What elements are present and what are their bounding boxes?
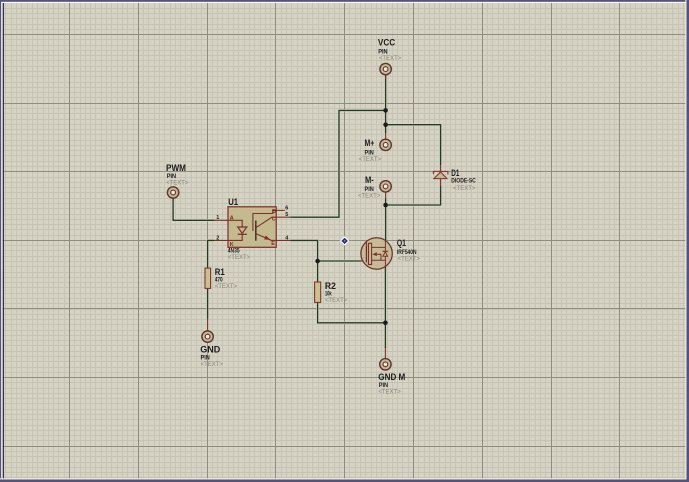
wire GND-M stub — [384, 348, 386, 358]
svg-text:<TEXT>: <TEXT> — [358, 194, 381, 200]
svg-text:4N35: 4N35 — [228, 249, 240, 255]
svg-text:<TEXT>: <TEXT> — [201, 362, 224, 368]
wire R2 to source node — [318, 302, 386, 322]
svg-text:B: B — [272, 209, 276, 215]
svg-text:<TEXT>: <TEXT> — [453, 186, 476, 192]
diode D1 DIODE-SC — [433, 171, 448, 178]
U1 pin 4 emitter — [256, 234, 290, 241]
wire VCC pin down — [384, 75, 386, 111]
wire GND stub — [207, 319, 209, 331]
svg-text:M-: M- — [365, 175, 374, 185]
pin GND — [202, 331, 213, 342]
U1 pin 2 stub — [214, 234, 242, 240]
svg-text:U1: U1 — [228, 197, 238, 207]
svg-text:PIN: PIN — [167, 174, 176, 180]
svg-text:R2: R2 — [325, 281, 336, 291]
svg-text:1: 1 — [216, 215, 219, 221]
svg-text:<TEXT>: <TEXT> — [378, 389, 401, 395]
svg-text:C: C — [272, 216, 276, 222]
wire D1 anode stub — [440, 179, 442, 186]
svg-text:A: A — [230, 216, 234, 222]
sheet edge line — [3, 3, 4, 482]
wire M- pin to node C — [384, 198, 386, 205]
U1 emitter arrow — [264, 235, 270, 240]
wire Q1 gate stub — [361, 260, 368, 262]
wire D1 cathode stub — [440, 165, 442, 171]
wire source node to GND-M pin — [384, 323, 386, 348]
svg-text:DIODE-SC: DIODE-SC — [451, 179, 476, 185]
U1 pin 1 stub — [214, 220, 242, 227]
svg-text:IRF540N: IRF540N — [397, 250, 417, 256]
svg-text:<TEXT>: <TEXT> — [166, 181, 189, 187]
wire R1 to GND pin — [206, 288, 208, 319]
wire M+ stub — [385, 133, 387, 139]
svg-text:<TEXT>: <TEXT> — [398, 256, 421, 262]
node E junction dot — [383, 321, 388, 326]
svg-text:<TEXT>: <TEXT> — [359, 157, 382, 163]
svg-text:<TEXT>: <TEXT> — [379, 56, 402, 62]
svg-text:K: K — [230, 242, 234, 248]
resistor R2 — [315, 282, 321, 302]
svg-text:470: 470 — [215, 278, 224, 284]
svg-text:PIN: PIN — [378, 49, 387, 55]
svg-text:GND: GND — [200, 344, 221, 354]
svg-text:<TEXT>: <TEXT> — [215, 284, 238, 290]
node C junction dot — [383, 203, 388, 208]
transistor Q1 IRF540N mosfet — [361, 238, 392, 269]
svg-text:<TEXT>: <TEXT> — [228, 255, 251, 261]
node A junction dot — [383, 108, 388, 113]
svg-text:5: 5 — [285, 212, 288, 218]
U1 pin 6 base lead — [253, 210, 276, 231]
wire U1 pin5 to VCC node — [290, 110, 385, 217]
svg-text:D1: D1 — [451, 168, 459, 178]
U1 phototransistor base bar — [255, 221, 257, 241]
wire Q1 source down — [384, 267, 386, 323]
wire M- stub — [385, 192, 387, 198]
pin GND-M — [380, 359, 391, 370]
wire node B to D1 cathode — [386, 125, 441, 165]
svg-text:<TEXT>: <TEXT> — [325, 298, 348, 304]
wire U1 pin4 to R2/gate node — [290, 240, 317, 282]
U1 pin 5 collector — [256, 217, 290, 227]
svg-text:PIN: PIN — [365, 187, 374, 193]
U1 LED D — [238, 227, 247, 233]
svg-text:E: E — [271, 241, 275, 247]
node D junction dot — [315, 259, 320, 264]
pin VCC — [380, 63, 391, 74]
pin M+ — [380, 139, 391, 150]
svg-text:VCC: VCC — [378, 37, 396, 47]
wire U1 pin2 to R1 — [208, 240, 214, 268]
wire node A to node B — [384, 110, 386, 124]
svg-text:PIN: PIN — [365, 151, 374, 157]
resistor R1 — [205, 268, 211, 288]
node B junction dot — [383, 122, 388, 127]
svg-text:PIN: PIN — [201, 356, 210, 362]
wire PWM to U1 pin1 — [173, 199, 214, 221]
op-to U1 body 4N35 — [228, 207, 276, 248]
wire D1 anode to node C — [386, 186, 441, 205]
svg-text:PIN: PIN — [379, 383, 388, 389]
node marker blue diamond — [340, 236, 349, 245]
wire VCC stub — [385, 75, 387, 79]
pin PWM — [167, 187, 178, 198]
svg-text:2: 2 — [216, 235, 219, 241]
svg-text:GND M: GND M — [378, 372, 405, 382]
wire node B to M+ pin — [384, 125, 386, 133]
svg-text:PWM: PWM — [166, 163, 186, 173]
svg-text:Q1: Q1 — [397, 238, 406, 248]
svg-text:10k: 10k — [325, 291, 332, 297]
pin M- — [380, 181, 391, 192]
svg-text:6: 6 — [285, 205, 288, 211]
svg-text:M+: M+ — [365, 138, 375, 148]
wire gate node to Q1 gate — [318, 260, 361, 262]
wire node C to Q1 drain — [384, 205, 386, 241]
svg-text:R1: R1 — [215, 267, 225, 277]
